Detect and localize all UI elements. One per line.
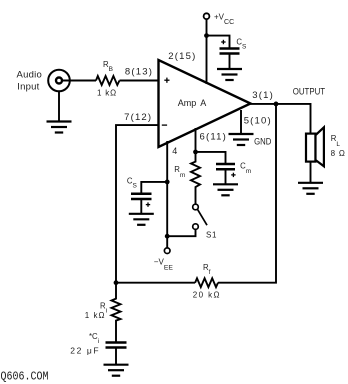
switch S1 [193,204,207,229]
svg-text:Cm: Cm [240,162,251,176]
ground under Ci [104,365,129,376]
svg-text:RL: RL [331,134,341,148]
wire CS left to ground [140,199,142,214]
wire op-amp - input to feedback node [116,125,159,284]
svg-text:2(15): 2(15) [168,51,196,62]
resistor RB [96,76,120,85]
connector J1 audio input jack [48,70,70,92]
wire Cm to ground [225,169,227,184]
junction feedback node [114,280,119,285]
resistor Rf [195,278,218,287]
polarity + of CS top [221,40,225,44]
resistor Ri [112,283,121,342]
junction -VEE node [165,234,170,239]
junction output node [274,102,279,107]
svg-text:Rm: Rm [174,165,185,179]
ground under CS top [217,69,242,80]
svg-text:5(10): 5(10) [244,115,272,126]
wire jack to ground [58,91,60,121]
wire VCC node to CS [207,36,230,48]
polarity + of CS left [146,202,150,206]
wire node to Cm [196,152,226,163]
svg-text:Audio: Audio [17,70,43,81]
svg-text:1 kΩ: 1 kΩ [97,89,117,98]
polarity + of Cm [231,173,235,177]
wire CS to ground [229,54,231,70]
svg-text:8 Ω: 8 Ω [331,149,346,158]
wire op-amp output to speaker [251,104,311,134]
capacitor Cm [216,164,235,169]
wire pin 5 to ground [240,110,242,134]
wire feedback bottom run [116,282,195,284]
capacitor Ci [106,343,127,348]
svg-text:Rf: Rf [203,263,211,276]
svg-text:20 kΩ: 20 kΩ [193,290,221,299]
ground pin 5 GND [229,134,254,145]
capacitor CS (left, supply bypass) [131,194,152,199]
svg-text:CS: CS [127,177,138,190]
svg-text:3(1): 3(1) [252,90,274,101]
junction CS left node [165,180,170,185]
wire node to CS left [141,182,167,193]
terminal +VCC [204,13,210,19]
svg-text:S1: S1 [206,230,217,239]
terminal -VEE [164,248,170,254]
svg-text:OUTPUT: OUTPUT [293,87,326,98]
svg-text:RB: RB [103,60,113,73]
svg-text:GND: GND [254,137,272,147]
junction pin 6 node [193,150,198,155]
resistor Rm [191,152,200,204]
svg-text:A: A [200,98,206,108]
wire Rf to output node [218,104,276,283]
wire op-amp pin 4 down to -VEE [166,141,168,248]
svg-text:+VCC: +VCC [214,12,234,26]
capacitor CS (top, supply bypass) [220,49,240,54]
svg-text:6(11): 6(11) [200,132,227,143]
svg-text:Q606.COM: Q606.COM [1,370,49,383]
ground under CS left [129,214,154,225]
wire VCC to op-amp pin 2 [206,19,208,84]
svg-text:4: 4 [172,146,177,156]
svg-text:Amp: Amp [178,98,197,108]
junction VCC node [204,33,209,38]
ground under speaker [298,183,323,194]
ground under jack [47,122,72,133]
svg-text:22 μF: 22 μF [70,345,100,355]
svg-text:−VEE: −VEE [154,258,174,272]
svg-text:*Ci: *Ci [89,332,99,345]
wire Ci to ground [115,348,117,365]
label Audio Input [17,70,43,93]
ground under Cm [213,184,238,195]
wire S1 to VEE node [167,229,195,236]
op-amp U1 Amp A [159,60,251,147]
wire op-amp pin 6 down to node [195,128,197,152]
svg-text:8(13): 8(13) [125,66,153,77]
wire RB to op-amp + input [120,80,159,82]
wire speaker to ground [310,162,312,183]
svg-text:1 kΩ: 1 kΩ [85,311,106,320]
svg-text:Input: Input [17,81,39,92]
speaker RL [306,127,324,166]
svg-text:7(12): 7(12) [124,112,152,123]
wire jack to RB [62,80,96,82]
